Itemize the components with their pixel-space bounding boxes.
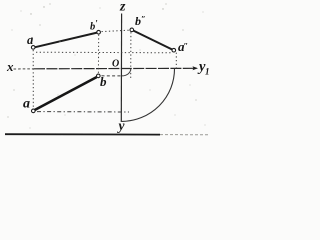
svg-text:x: x: [6, 59, 14, 74]
point a': [31, 46, 35, 50]
construction line horizontal a'-a'': [36, 51, 172, 54]
big transfer arc (quarter circle): [122, 69, 175, 122]
axis z vertical (z above, y below O): [120, 14, 122, 123]
axis x (horizontal, dashed left part): [14, 68, 35, 70]
construction line vertical b'' down to small arc: [130, 32, 132, 79]
scan speckles: [7, 3, 205, 128]
construction line vertical b-b': [97, 35, 99, 74]
small transfer arc near O: [122, 69, 131, 76]
svg-text:b: b: [100, 74, 107, 89]
svg-text:y: y: [117, 118, 126, 133]
svg-text:a: a: [23, 97, 30, 112]
point a'': [172, 48, 176, 52]
bottom border faint continuation: [160, 134, 208, 136]
point b': [97, 30, 101, 34]
segment b''a'' (profile projection): [133, 31, 172, 50]
axis x-y1 main horizontal line: [34, 67, 197, 70]
construction line vertical a'' down to axis: [175, 53, 177, 69]
segment ab (horizontal projection, bold): [35, 77, 97, 110]
construction line horizontal a to y-axis: [37, 111, 129, 113]
bottom border line: [5, 133, 160, 135]
point a: [32, 109, 36, 113]
svg-text:a′: a′: [27, 33, 33, 47]
point b: [97, 74, 101, 78]
construction line vertical a-a': [32, 50, 34, 109]
svg-text:z: z: [119, 0, 126, 15]
construction line horizontal b to y-axis: [102, 75, 122, 77]
point b'': [130, 28, 134, 32]
arrowhead y1 axis: [193, 66, 199, 70]
svg-text:O: O: [112, 59, 119, 70]
construction line horizontal b'-b'': [102, 30, 130, 31]
segment a'b' (frontal projection): [35, 33, 97, 48]
